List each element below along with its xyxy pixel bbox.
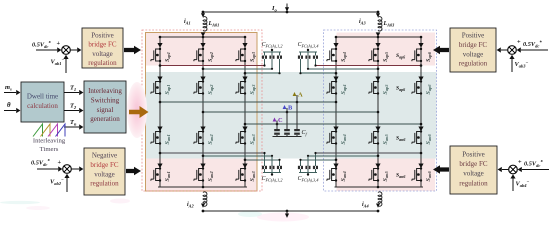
transistor Sap5 xyxy=(369,48,390,62)
signal T2 xyxy=(64,103,83,114)
gate arrow Sap5 right xyxy=(375,43,380,48)
svg-text:San3: San3 xyxy=(250,171,256,182)
block positive bridge FC voltage regulation bottom-right xyxy=(450,146,497,194)
reference input 0.5Vdc top-right xyxy=(517,39,548,53)
svg-text:Sap4: Sap4 xyxy=(341,84,347,95)
svg-text:San2: San2 xyxy=(208,134,214,145)
wire summing to block top-right xyxy=(501,49,508,51)
block interleaving switching signal generation xyxy=(84,81,126,133)
svg-text:San5: San5 xyxy=(383,134,389,145)
red dashed box around left bridge group xyxy=(142,30,262,191)
svg-text:Sap1: Sap1 xyxy=(165,52,171,62)
artifact smudge bottom center xyxy=(257,213,309,222)
svg-text:iA4: iA4 xyxy=(362,202,370,208)
flying capacitors CFC(A)1-2 bottom-left xyxy=(262,152,283,184)
flying-cap bus wires lower left xyxy=(159,152,279,161)
phase C rail xyxy=(244,123,423,126)
transistor San4 xyxy=(327,130,348,144)
gate arrow San5 right xyxy=(375,127,380,132)
transistor San3 xyxy=(236,167,257,181)
svg-text:CFC(A),1,2: CFC(A),1,2 xyxy=(262,176,283,183)
gate arrow Sap2 left xyxy=(200,77,205,82)
artifact smudge below negative box xyxy=(110,199,130,204)
gate arrow Sap3 left xyxy=(242,43,247,48)
top bus left group xyxy=(159,36,247,39)
svg-text:San6: San6 xyxy=(426,171,432,182)
transistor Sap6 xyxy=(412,48,433,62)
transistor Sap2 xyxy=(194,48,215,62)
feedback Vab4 xyxy=(510,174,529,191)
svg-text:San2: San2 xyxy=(208,171,214,182)
node A xyxy=(293,92,303,130)
transistor Sap1 xyxy=(151,48,172,62)
svg-text:θ: θ xyxy=(7,102,11,109)
gate arrow San3 left xyxy=(242,127,247,132)
transistor San6 xyxy=(412,130,433,144)
transistor Sap1 xyxy=(151,80,172,94)
svg-text:San1: San1 xyxy=(165,134,171,144)
transistor Sap3 xyxy=(236,48,257,62)
inductor LA02 xyxy=(201,192,207,213)
top bus right group xyxy=(335,36,423,39)
positive/negative bridge shaded regions xyxy=(146,33,437,192)
flying-cap bus wires lower right xyxy=(301,152,422,161)
svg-text:iA2: iA2 xyxy=(187,202,195,208)
thick arrow to right bridge bottom xyxy=(433,165,449,174)
svg-text:B: B xyxy=(288,105,293,112)
bottom rail stub xyxy=(285,210,289,218)
wire summing to block bottom-right xyxy=(502,169,509,171)
tan border box around left bridge group xyxy=(146,33,258,192)
input ms xyxy=(4,84,20,95)
feedback Vab1 xyxy=(51,55,69,73)
thick arrow from negative regulation to bridge xyxy=(126,167,141,176)
gate arrow Sap6 right xyxy=(418,77,423,82)
transistor San2 xyxy=(194,130,215,144)
gate arrow San4 right xyxy=(333,127,338,132)
signal T1 xyxy=(64,85,83,96)
thick arrow to right bridge top xyxy=(433,46,449,55)
summing junction bottom-left xyxy=(63,165,72,174)
gate arrow Sap1 left xyxy=(157,43,162,48)
svg-text:San4: San4 xyxy=(341,134,347,145)
transistor Sap6 xyxy=(412,80,433,94)
transistor Sap5 xyxy=(369,80,390,94)
feedback Vab2 xyxy=(50,174,70,192)
svg-text:+: + xyxy=(58,159,62,166)
blue dashed box around right bridge group xyxy=(324,30,437,191)
node B xyxy=(283,105,293,130)
gate arrow Sap1 left xyxy=(157,77,162,82)
input theta xyxy=(4,102,20,113)
transistor Sap4 xyxy=(327,48,348,62)
svg-text:San5: San5 xyxy=(383,171,389,182)
transistor San3 xyxy=(236,130,257,144)
svg-text:San6: San6 xyxy=(426,134,432,145)
transistor San2 xyxy=(194,167,215,181)
inductor LA01 xyxy=(201,11,207,37)
gate arrow San3 left xyxy=(242,164,247,169)
block negative bridge FC voltage regulation xyxy=(84,148,125,195)
gate arrow San4 right xyxy=(333,164,338,169)
transistor San1 xyxy=(151,130,172,144)
svg-text:Sap1: Sap1 xyxy=(165,85,171,95)
flying capacitors CFC(A)3-4 top-right xyxy=(298,42,319,74)
transistor San1 xyxy=(151,167,172,181)
gate arrow San6 right xyxy=(418,164,423,169)
gate arrow Sap4 right xyxy=(333,77,338,82)
interleaving timers sawtooth icon xyxy=(33,124,65,137)
transistor Sap3 xyxy=(236,80,257,94)
gate arrow Sap3 left xyxy=(242,77,247,82)
svg-text:San3: San3 xyxy=(250,134,256,145)
svg-text:Sap2: Sap2 xyxy=(208,51,214,62)
svg-text:A: A xyxy=(298,92,303,99)
bottom bus left group xyxy=(158,186,247,189)
transistor San5 xyxy=(369,130,390,144)
filter capacitors Cf xyxy=(273,129,302,137)
gate arrow San2 left xyxy=(200,127,205,132)
right group leg wires xyxy=(336,37,421,187)
node C xyxy=(273,117,283,129)
flying capacitors CFC(A)1-2 top-left xyxy=(262,42,283,74)
svg-text:Sap6: Sap6 xyxy=(426,84,432,95)
svg-text:CFC(A),3,4: CFC(A),3,4 xyxy=(298,42,319,49)
svg-text:San4: San4 xyxy=(341,171,347,182)
svg-text:+: + xyxy=(518,159,522,166)
gate arrow Sap4 right xyxy=(333,43,338,48)
flying-cap bus wires upper right xyxy=(301,64,422,74)
svg-text:iA1: iA1 xyxy=(184,19,191,25)
bottom bus right group xyxy=(335,186,424,189)
feedback Vab3 xyxy=(509,55,528,72)
block positive bridge FC voltage regulation left xyxy=(82,28,123,68)
phase A rail xyxy=(159,101,338,104)
svg-text:LA03: LA03 xyxy=(383,21,396,27)
bottom rail wire xyxy=(203,210,378,212)
svg-text:+: + xyxy=(57,40,61,47)
wire summing to negative block xyxy=(71,168,79,170)
svg-text:C: C xyxy=(278,117,283,124)
reference input 0.5Vdc bottom-right xyxy=(518,159,549,173)
inductor LA03 xyxy=(376,11,382,37)
gate arrow Sap5 right xyxy=(375,77,380,82)
flying-cap bus wires upper left xyxy=(159,64,279,74)
svg-text:Cf: Cf xyxy=(302,130,308,136)
transistor San6 xyxy=(412,167,433,181)
svg-text:iA3: iA3 xyxy=(359,19,367,25)
wire summing to block xyxy=(70,49,77,51)
svg-text:Sap3: Sap3 xyxy=(250,84,256,95)
inductor LA04 xyxy=(376,192,382,213)
top dc rail wire xyxy=(203,11,378,13)
transistor Sap2 xyxy=(194,80,215,94)
transistor San4 xyxy=(327,167,348,181)
svg-text:Sap6: Sap6 xyxy=(396,53,405,59)
transistor San5 xyxy=(369,167,390,181)
gate arrow Sap2 left xyxy=(200,43,205,48)
gate arrow San2 left xyxy=(200,164,205,169)
svg-text:+: + xyxy=(517,39,521,46)
transistor Sap4 xyxy=(327,80,348,94)
left group leg wires xyxy=(160,37,245,187)
gate arrow Sap6 right xyxy=(418,43,423,48)
thick arrow from positive regulation to bridge xyxy=(124,46,141,55)
gate arrow San5 right xyxy=(375,164,380,169)
gate arrow San1 left xyxy=(157,164,162,169)
svg-text:Sap3: Sap3 xyxy=(250,51,256,62)
svg-text:CFC(A),1,2: CFC(A),1,2 xyxy=(262,42,283,49)
svg-text:Sap6: Sap6 xyxy=(396,86,405,92)
reference input 0.5Vdc bottom-left xyxy=(31,159,62,172)
gate arrow San1 left xyxy=(157,127,162,132)
svg-text:CFC(A),3,4: CFC(A),3,4 xyxy=(298,176,319,183)
svg-text:San1: San1 xyxy=(165,171,171,181)
flying capacitors CFC(A)3-4 bottom-right xyxy=(298,152,319,184)
svg-text:LA01: LA01 xyxy=(208,21,220,27)
svg-text:San6: San6 xyxy=(396,136,405,142)
svg-text:Dwell timecalculation: Dwell timecalculation xyxy=(27,93,59,110)
summing junction top-left xyxy=(62,46,71,55)
orange arrow switching signals to bridge xyxy=(129,106,149,118)
svg-text:Sap5: Sap5 xyxy=(383,84,389,95)
svg-text:Sap6: Sap6 xyxy=(426,51,432,62)
svg-text:Sap5: Sap5 xyxy=(383,51,389,62)
block dwell time calculation xyxy=(21,82,64,122)
gate arrow San6 right xyxy=(418,127,423,132)
signal Tn from timers xyxy=(64,119,83,130)
reference input 0.5Vdc top-left xyxy=(32,40,61,53)
svg-text:San6: San6 xyxy=(396,173,405,179)
svg-text:Sap2: Sap2 xyxy=(208,84,214,95)
node Io stub xyxy=(285,4,289,14)
svg-text:Sap4: Sap4 xyxy=(341,51,347,62)
phase B rail xyxy=(202,111,380,114)
summing junction top-right xyxy=(508,46,517,55)
block positive bridge FC voltage regulation top-right xyxy=(450,28,496,72)
summing junction bottom-right xyxy=(509,165,518,174)
